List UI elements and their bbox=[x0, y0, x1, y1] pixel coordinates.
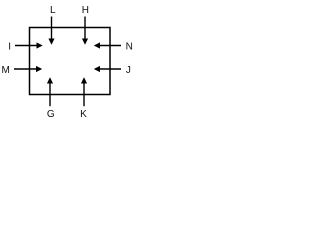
arrow J (leftward force at right-lower) bbox=[94, 66, 121, 72]
svg-text:G: G bbox=[47, 109, 55, 120]
box (block outline) bbox=[30, 28, 111, 95]
arrow K (upward force at bottom-right) bbox=[81, 77, 87, 106]
svg-text:I: I bbox=[8, 41, 11, 52]
arrow I (rightward force at left-upper) bbox=[15, 42, 43, 48]
svg-text:K: K bbox=[80, 109, 87, 120]
arrow L (downward force at top-left) bbox=[48, 17, 54, 45]
svg-text:M: M bbox=[2, 65, 10, 76]
svg-text:H: H bbox=[82, 5, 89, 16]
arrow N (leftward force at right-upper) bbox=[94, 42, 121, 48]
arrow M (rightward force at left-lower) bbox=[14, 66, 42, 72]
svg-text:L: L bbox=[50, 5, 56, 16]
arrow H (downward force at top-right) bbox=[82, 17, 88, 45]
svg-text:N: N bbox=[126, 41, 133, 52]
arrow G (upward force at bottom-left) bbox=[47, 77, 53, 106]
svg-text:J: J bbox=[126, 65, 131, 76]
